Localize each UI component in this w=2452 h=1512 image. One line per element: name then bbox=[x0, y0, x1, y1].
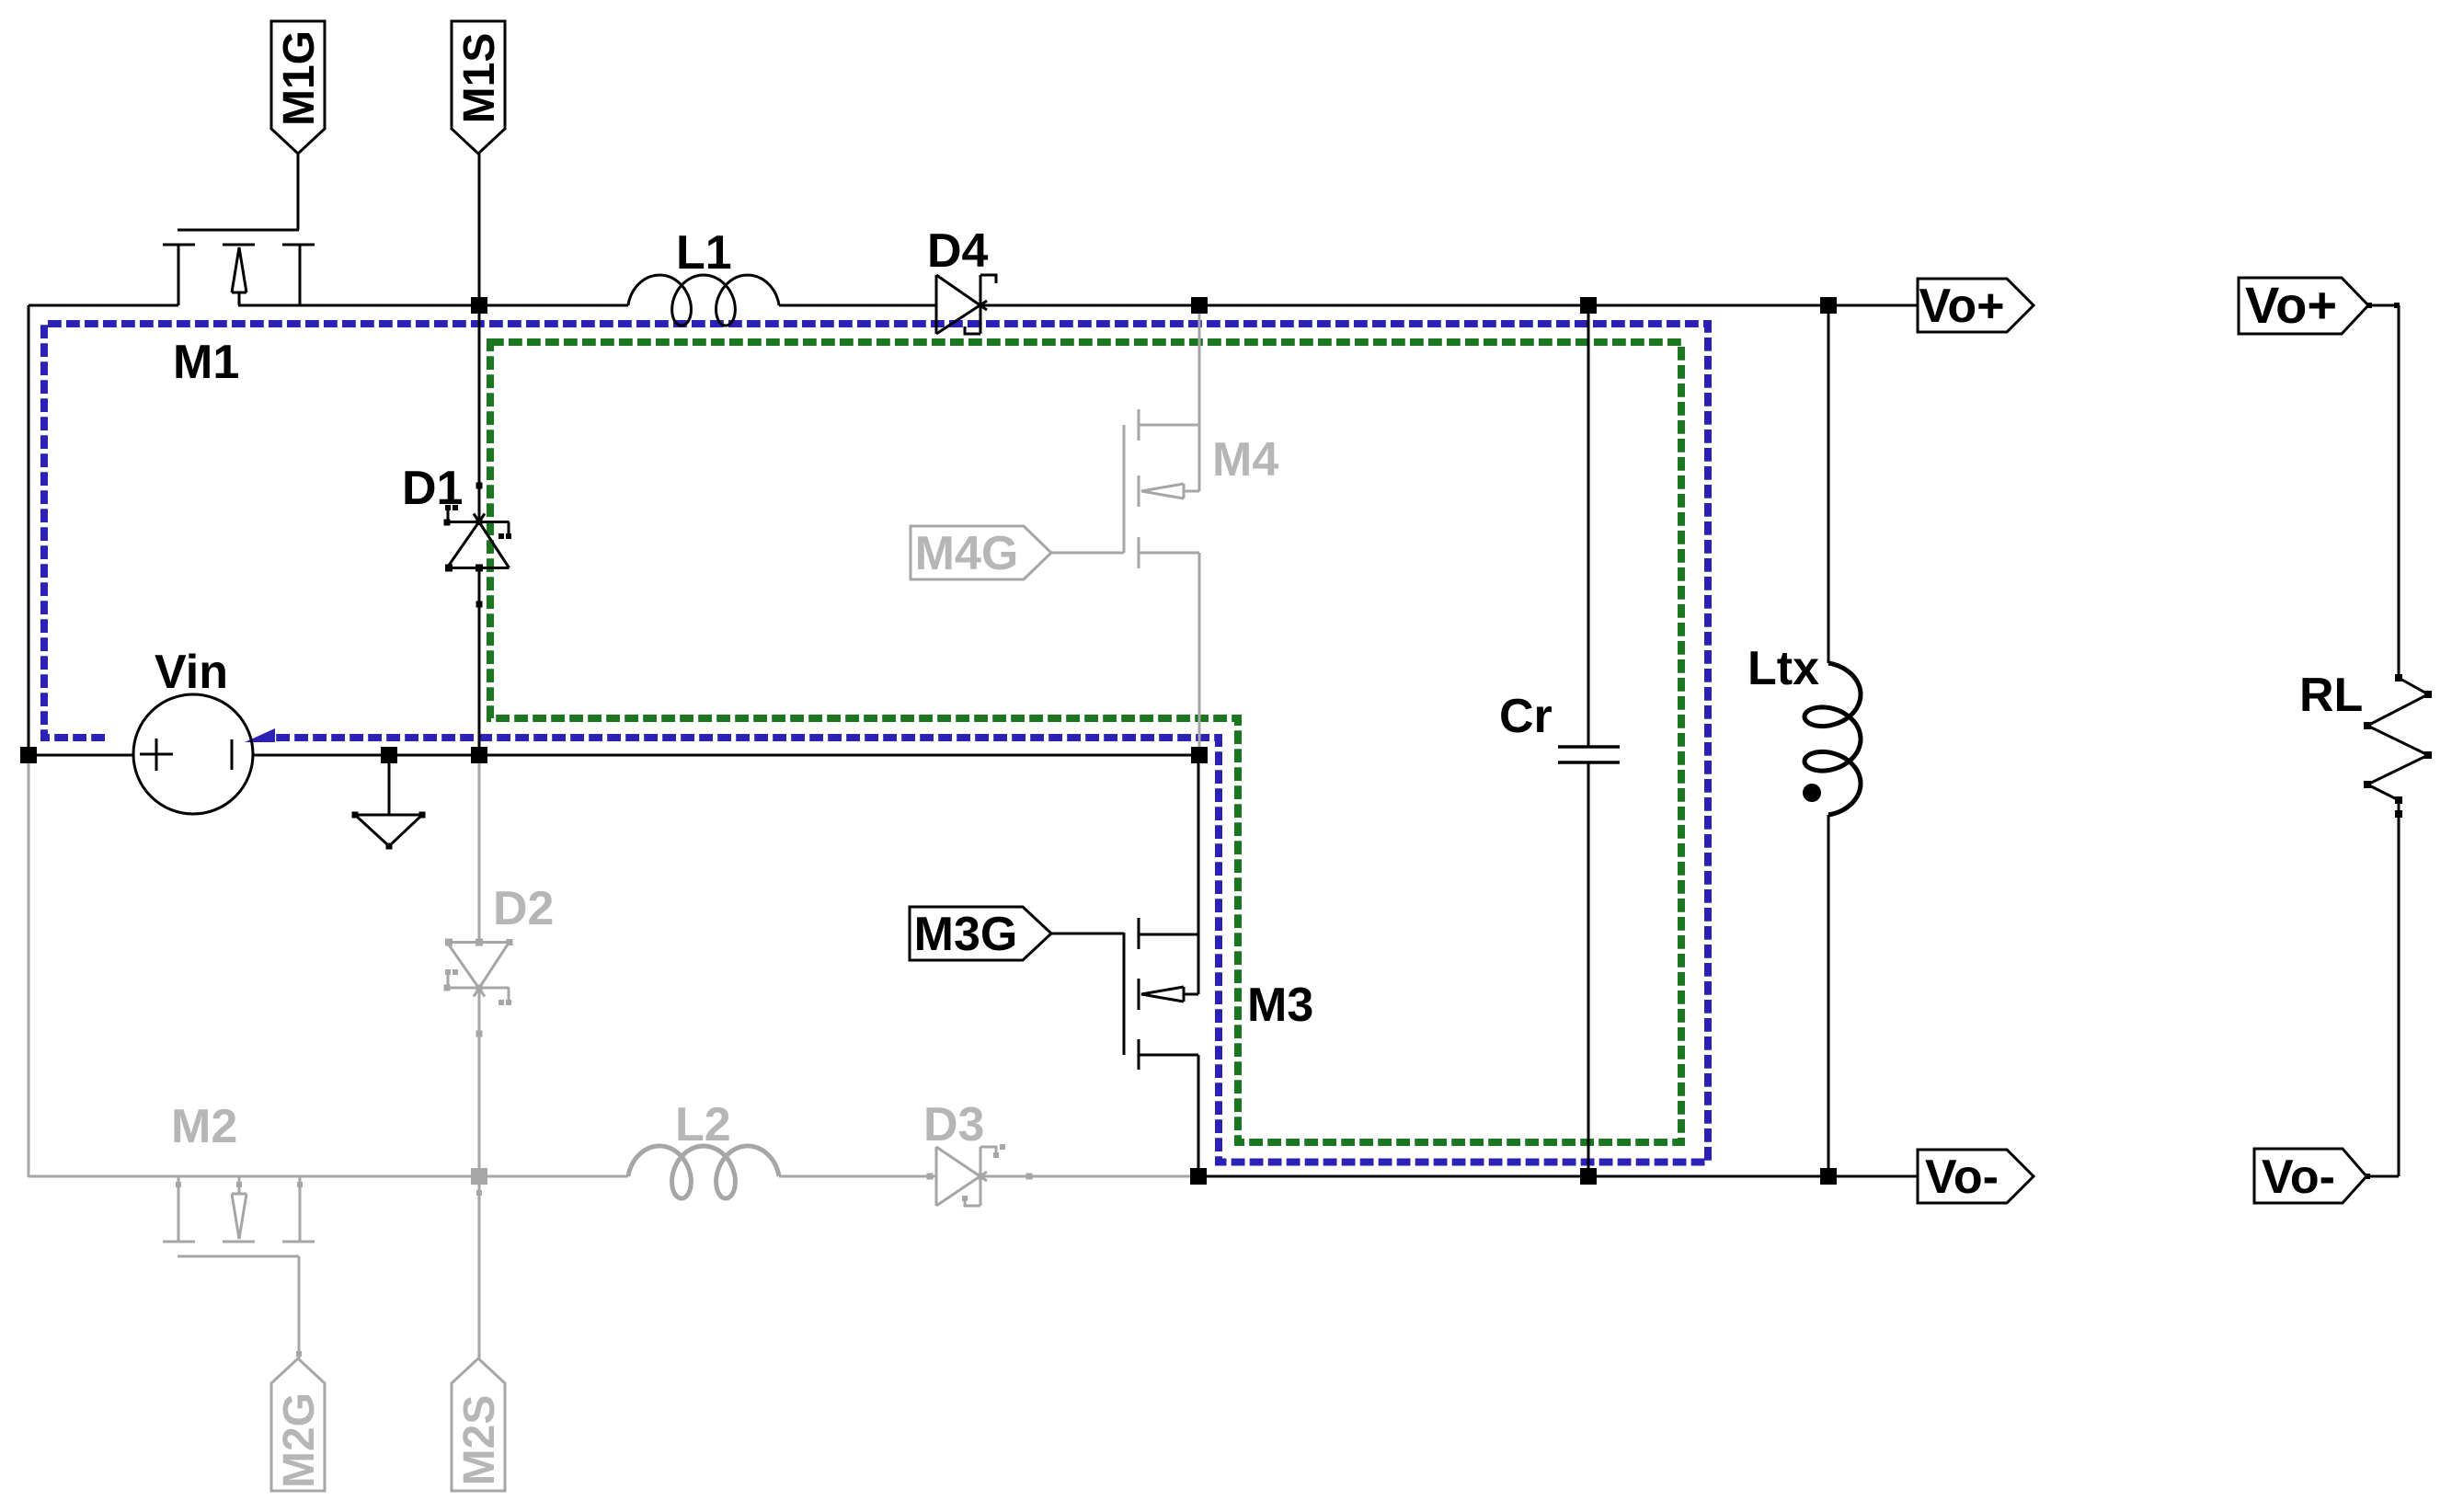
svg-text:Vo+: Vo+ bbox=[1919, 280, 2005, 333]
svg-text:RL: RL bbox=[2299, 669, 2363, 722]
svg-text:M4: M4 bbox=[1212, 433, 1278, 487]
svg-text:Vo+: Vo+ bbox=[2245, 276, 2337, 334]
svg-text:Vin: Vin bbox=[155, 646, 228, 699]
svg-text:Vo-: Vo- bbox=[1925, 1151, 1999, 1204]
svg-text:D1: D1 bbox=[402, 462, 463, 515]
svg-text:Ltx: Ltx bbox=[1747, 642, 1819, 695]
svg-text:Cr: Cr bbox=[1499, 690, 1553, 743]
svg-text:D2: D2 bbox=[493, 882, 554, 935]
svg-text:M4G: M4G bbox=[915, 527, 1019, 580]
svg-text:M1S: M1S bbox=[455, 33, 504, 124]
svg-text:D3: D3 bbox=[923, 1098, 984, 1151]
svg-text:M2: M2 bbox=[171, 1100, 237, 1153]
svg-text:M3: M3 bbox=[1247, 979, 1313, 1032]
svg-text:M3G: M3G bbox=[914, 908, 1018, 961]
svg-text:M1: M1 bbox=[173, 336, 239, 389]
svg-text:Vo-: Vo- bbox=[2262, 1151, 2335, 1204]
svg-text:M1G: M1G bbox=[275, 30, 324, 126]
svg-text:M2G: M2G bbox=[275, 1392, 324, 1488]
svg-text:M2S: M2S bbox=[455, 1395, 504, 1486]
svg-text:L2: L2 bbox=[675, 1098, 731, 1151]
svg-text:D4: D4 bbox=[927, 224, 989, 278]
svg-text:L1: L1 bbox=[676, 226, 732, 280]
